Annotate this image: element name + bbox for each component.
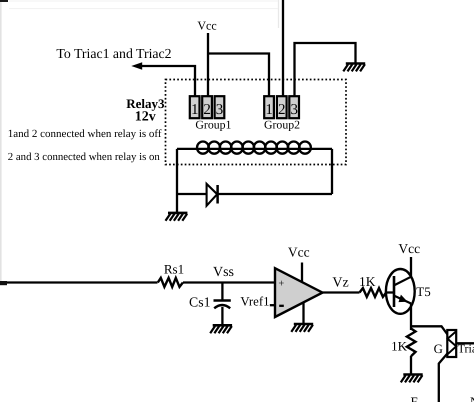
svg-text:2: 2 [278,102,286,118]
svg-text:Vcc: Vcc [398,241,420,256]
svg-text:Group1: Group1 [195,118,231,132]
svg-text:2 and 3 connected when relay i: 2 and 3 connected when relay is on [8,151,161,163]
svg-text:1and 2 connected when relay is: 1and 2 connected when relay is off [8,128,162,140]
svg-text:12v: 12v [135,109,156,124]
svg-text:Vcc: Vcc [197,19,216,33]
svg-text:Triac2: Triac2 [458,342,474,356]
svg-text:1K: 1K [391,339,408,354]
svg-text:3: 3 [216,102,224,118]
svg-text:Group2: Group2 [264,118,300,132]
svg-text:N: N [470,394,474,402]
svg-text:To Triac1 and Triac2: To Triac1 and Triac2 [56,46,171,61]
svg-text:Vz: Vz [332,276,348,291]
svg-text:T5: T5 [416,284,430,299]
svg-text:G: G [434,342,443,356]
svg-text:Cs1: Cs1 [189,295,211,310]
svg-text:2: 2 [203,102,211,118]
svg-text:+: + [278,279,284,290]
svg-text:1: 1 [191,102,199,118]
svg-text:1: 1 [265,102,273,118]
svg-text:F: F [411,394,418,402]
svg-text:Rs1: Rs1 [164,262,184,277]
svg-text:1K: 1K [359,274,376,289]
svg-text:Vss: Vss [213,265,234,280]
svg-text:Vcc: Vcc [288,245,310,260]
svg-text:3: 3 [290,102,298,118]
svg-text:Vref1: Vref1 [240,294,269,308]
